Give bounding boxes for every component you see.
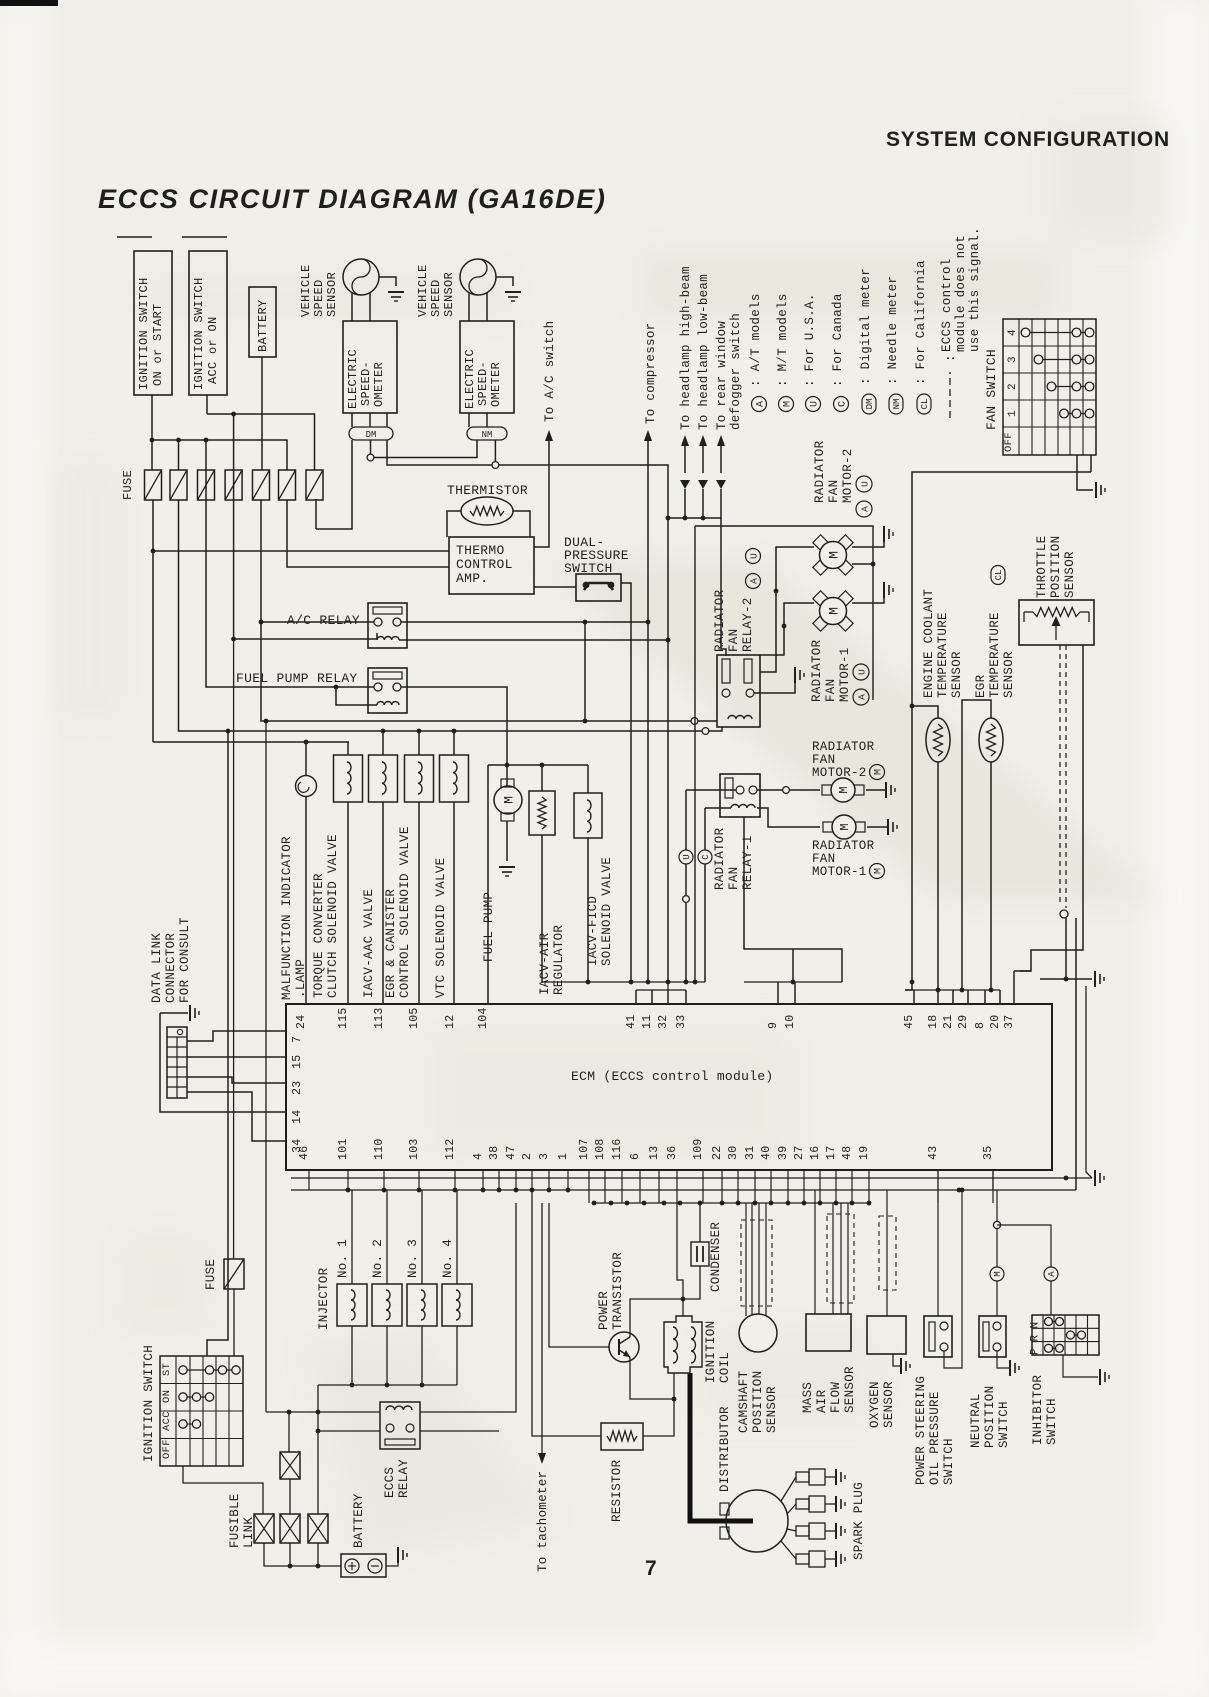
wire fuel pump relay coil left	[336, 687, 377, 705]
svg-text:OMETER: OMETER	[372, 362, 386, 407]
thermistor	[461, 497, 513, 525]
bus below ECM row 1	[291, 1177, 1060, 1179]
svg-text:A: A	[1047, 1271, 1057, 1277]
svg-text:VTC SOLENOID VALVE: VTC SOLENOID VALVE	[434, 858, 448, 998]
svg-text:To headlamp low-beam: To headlamp low-beam	[697, 274, 711, 430]
wire A/C relay contact output to compressor line	[401, 621, 648, 623]
svg-text:15: 15	[291, 1055, 304, 1069]
svg-text:ST: ST	[161, 1363, 173, 1376]
fuse F1	[145, 470, 162, 500]
resistor	[601, 1423, 643, 1450]
radiator fan motor-1 (A,U)	[838, 616, 854, 632]
connector DM	[349, 427, 393, 440]
wire condenser to coil top	[683, 1266, 700, 1299]
wire resistor to pin 2	[532, 1190, 601, 1436]
svg-text:ACC: ACC	[161, 1411, 173, 1431]
svg-text:RADIATOR: RADIATOR	[812, 839, 875, 853]
torque converter clutch solenoid valve	[347, 742, 349, 755]
circled A inhibitor branch	[997, 1225, 1051, 1267]
svg-text:FAN: FAN	[727, 867, 741, 890]
wire power transistor collector up	[630, 1299, 683, 1337]
svg-text:C: C	[701, 854, 711, 860]
svg-text:DATA LINK: DATA LINK	[150, 933, 164, 1003]
svg-text:BATTERY: BATTERY	[256, 299, 270, 352]
svg-text:RADIATOR: RADIATOR	[812, 740, 875, 754]
fan switch output bus to coolant sensor column	[912, 472, 1091, 982]
svg-text:M: M	[783, 401, 794, 407]
wire fuse6 to thermo control amp	[287, 500, 449, 567]
ground radiator fan motor-1M	[888, 819, 897, 835]
inhibitor switch table	[1032, 1315, 1099, 1355]
svg-text:MOTOR-1: MOTOR-1	[812, 865, 867, 879]
svg-text:U: U	[682, 854, 692, 859]
svg-text:ELECTRIC: ELECTRIC	[463, 349, 477, 409]
wire injector No. 1 to supply bus	[351, 1326, 353, 1385]
svg-text:INJECTOR: INJECTOR	[317, 1267, 331, 1330]
wire DLC ground link	[160, 1012, 188, 1014]
ground radiator fan motor-1AU	[884, 582, 893, 598]
power transistor	[609, 1332, 639, 1362]
svg-text:IGNITION SWITCH: IGNITION SWITCH	[192, 277, 206, 390]
svg-text:FOR CONSULT: FOR CONSULT	[178, 917, 192, 1003]
wire coolant sensor to ECM	[937, 762, 939, 990]
svg-text:No. 1: No. 1	[336, 1239, 350, 1278]
svg-text:ECCS CIRCUIT DIAGRAM (GA16DE): ECCS CIRCUIT DIAGRAM (GA16DE)	[98, 184, 606, 214]
svg-text:EGR & CANISTER: EGR & CANISTER	[384, 889, 398, 998]
A/C relay	[368, 603, 407, 648]
svg-text:FUSIBLE: FUSIBLE	[228, 1493, 242, 1548]
wire bus row2 right end down	[1075, 1189, 1077, 1191]
svg-text:101: 101	[337, 1138, 350, 1160]
wire power steering switch from pin 43	[937, 1190, 939, 1316]
svg-text:10: 10	[784, 1015, 797, 1029]
bus fuse1 to solenoid valve 1 and MIL	[153, 741, 349, 743]
fan switch ground drop	[1077, 472, 1093, 490]
svg-text:CONTROL: CONTROL	[456, 557, 513, 572]
svg-text:THERMISTOR: THERMISTOR	[447, 483, 528, 498]
svg-text:RELAY: RELAY	[397, 1459, 411, 1498]
wire branch down to ECM pin 104	[487, 765, 489, 1004]
wire A/C relay coil to fuse4 column	[234, 470, 377, 639]
distributor	[726, 1490, 788, 1552]
ground data link connector	[190, 1005, 199, 1021]
svg-text:ECCS control: ECCS control	[940, 258, 954, 352]
svg-text:N: N	[1030, 1322, 1042, 1329]
dashed shield camshaft position sensor	[741, 1220, 772, 1306]
svg-text:TEMPERATURE: TEMPERATURE	[988, 612, 1002, 698]
spark plug 4	[781, 1541, 796, 1559]
wire battery to fuse 5	[261, 357, 263, 470]
bus below ECM row 2	[291, 1189, 1076, 1191]
svg-text:35: 35	[982, 1146, 995, 1160]
wire relay-2 left contact to bus B	[709, 727, 722, 731]
wire relay-1 coil left	[705, 807, 731, 809]
dashed shield oxygen sensor	[879, 1216, 896, 1290]
svg-text:SWITCH: SWITCH	[942, 1438, 956, 1485]
ignition switch table	[160, 1356, 243, 1466]
svg-text:SENSOR: SENSOR	[765, 1386, 779, 1433]
connector on relay-1 feed	[683, 896, 690, 903]
wire long vertical to ignition switch table col1	[207, 731, 228, 1356]
svg-text:.LAMP: .LAMP	[294, 959, 308, 998]
wire NM right output to meter bus	[494, 440, 496, 461]
svg-text:: For U.S.A.: : For U.S.A.	[803, 293, 817, 387]
svg-text:SPARK PLUG: SPARK PLUG	[852, 1482, 866, 1560]
svg-text:MOTOR-2: MOTOR-2	[841, 448, 855, 503]
engine coolant temperature sensor	[912, 706, 938, 718]
svg-text:7: 7	[645, 1557, 657, 1580]
wire VSS1 to ground	[379, 277, 396, 286]
svg-text:COIL: COIL	[718, 1352, 732, 1383]
ground radiator fan relay-2	[795, 667, 804, 683]
svg-text:FLOW: FLOW	[829, 1382, 843, 1413]
fuse F5	[253, 470, 270, 500]
spark plug 1	[781, 1477, 796, 1501]
ignition switch ON or START box	[134, 251, 172, 395]
svg-text:M: M	[502, 796, 517, 804]
wire thermo amp to dual-pressure switch	[534, 586, 576, 588]
wire DLC to ECM pin 14	[160, 1013, 286, 1112]
svg-text:FAN: FAN	[824, 679, 838, 702]
ground VSS2	[505, 292, 521, 301]
wire fuse1 down with tap to thermo control amp	[152, 500, 154, 742]
radiator fan motor-1 (M)	[823, 822, 833, 832]
bus above ECM right segment	[905, 989, 1000, 991]
neutral position switch	[979, 1316, 1006, 1357]
spark plug 3	[787, 1529, 796, 1531]
svg-text:U: U	[859, 481, 870, 487]
arrow up for accessory circuit 3	[720, 444, 722, 473]
svg-text:TORQUE CONVERTER: TORQUE CONVERTER	[312, 873, 326, 998]
wire EGR sensor top	[962, 700, 991, 990]
wire dual-pressure switch output to fan relay column	[621, 583, 631, 982]
data link connector for CONSULT	[167, 1027, 187, 1098]
svg-text:No. 4: No. 4	[441, 1239, 455, 1278]
oxygen sensor box	[867, 1316, 906, 1354]
wires TPS dashed to ECM	[1059, 645, 1061, 905]
IACV-FICD solenoid valve	[574, 793, 602, 838]
svg-text:SPEED-: SPEED-	[359, 361, 373, 406]
svg-text:RADIATOR: RADIATOR	[813, 440, 827, 503]
IACV-air regulator	[529, 791, 555, 835]
svg-text:VEHICLE: VEHICLE	[299, 264, 313, 317]
svg-text:ON or START: ON or START	[151, 303, 165, 386]
wire vertical feed to ECCS relay bus	[265, 721, 267, 1412]
svg-text:ENGINE COOLANT: ENGINE COOLANT	[922, 589, 936, 698]
svg-text:SENSOR: SENSOR	[1063, 551, 1077, 598]
IACV-AAC valve	[382, 731, 384, 755]
wire TPS return line	[1075, 918, 1077, 1190]
wire IACV-AAC valve to ECM	[382, 802, 384, 1004]
wire relay-1 coil right to motor-1M	[757, 808, 820, 827]
wire fuel pump relay output to fuel pump	[401, 687, 507, 765]
svg-text:31: 31	[744, 1146, 757, 1160]
junction connector on meter link	[367, 454, 374, 461]
wire IACV-FICD down to top bus	[587, 838, 589, 982]
legend symbol A	[752, 397, 767, 412]
bus ignition switch 1 feeding fuses 1-3 and 6	[152, 440, 287, 470]
wire power transistor emitter down	[630, 1357, 674, 1399]
svg-text:R: R	[1030, 1334, 1042, 1341]
ground inhibitor switch	[1100, 1369, 1109, 1385]
svg-text:VEHICLE: VEHICLE	[416, 264, 430, 317]
svg-text:112: 112	[444, 1138, 457, 1160]
svg-text:CONDENSER: CONDENSER	[709, 1222, 723, 1292]
stubs into ECM top pins right	[905, 982, 912, 990]
injector supply bus	[318, 1384, 457, 1386]
svg-text:14: 14	[291, 1110, 304, 1124]
wire MIL down to ECM pin 24	[305, 796, 307, 1004]
junction connector on meter bus	[492, 462, 499, 469]
inhibitor contacts N row	[1049, 1321, 1060, 1323]
svg-text:40: 40	[760, 1146, 773, 1160]
wires mass air flow sensor	[832, 1203, 834, 1314]
svg-text:ECM (ECCS control module): ECM (ECCS control module)	[571, 1069, 774, 1084]
legend symbol NM	[889, 394, 903, 414]
bus fuse5 to radiator fan relay-2 coil	[261, 500, 691, 721]
svg-text:use this signal.: use this signal.	[968, 227, 982, 352]
svg-text:OMETER: OMETER	[489, 362, 503, 407]
svg-text:113: 113	[373, 1007, 386, 1029]
ignition coil	[682, 1299, 684, 1316]
wires speedometer 1 to DM connector	[351, 413, 353, 427]
wire VTC solenoid valve to ECM	[453, 802, 455, 1004]
fuel pump relay	[368, 668, 407, 713]
spark plug 2	[787, 1504, 796, 1514]
wire fuel pump branch to IACV units and pin 104	[488, 764, 588, 766]
svg-text:3: 3	[1007, 356, 1019, 363]
wire PS switch return	[944, 1190, 962, 1368]
svg-text:No. 3: No. 3	[406, 1239, 420, 1278]
bus ignition switch 2 feeding fuses 4 and 7	[207, 414, 315, 470]
ECM (ECCS control module)	[286, 1004, 1052, 1170]
wire fuse1 tap to thermo control amp	[153, 550, 449, 552]
svg-text:OIL PRESSURE: OIL PRESSURE	[928, 1391, 942, 1485]
link bus to pin row	[667, 982, 669, 990]
svg-text:To rear window: To rear window	[715, 321, 729, 430]
wire motor-1AU left	[784, 603, 814, 626]
svg-text:DISTRIBUTOR: DISTRIBUTOR	[718, 1406, 732, 1492]
svg-text:45: 45	[903, 1015, 916, 1029]
svg-text:A/C RELAY: A/C RELAY	[287, 613, 360, 628]
fuse F7	[306, 470, 323, 500]
svg-text:MOTOR-1: MOTOR-1	[838, 647, 852, 702]
svg-text:THROTTLE: THROTTLE	[1035, 536, 1049, 598]
ground right of ECM top	[1040, 978, 1092, 980]
wire branch down from A/C relay output	[584, 622, 586, 721]
diode mark for accessory circuit 2	[698, 480, 708, 489]
fusible link 3	[308, 1514, 328, 1543]
svg-text:33: 33	[675, 1015, 688, 1029]
wire relay-1 left contact	[686, 789, 736, 791]
fusible link small above FL2	[280, 1452, 300, 1479]
svg-text:2: 2	[521, 1153, 534, 1160]
svg-text:AIR: AIR	[815, 1389, 829, 1413]
wire DLC to ECM pin 7	[187, 1031, 286, 1041]
svg-text::: :	[944, 354, 958, 362]
wire fuel pump relay feed from fuse3	[206, 470, 374, 687]
svg-text:OXYGEN: OXYGEN	[868, 1381, 882, 1428]
svg-text:29: 29	[957, 1015, 970, 1029]
svg-text:U: U	[748, 553, 759, 559]
wires speedometer 2 to NM connector	[468, 413, 470, 427]
svg-text:M: M	[827, 607, 842, 615]
svg-text:FAN SWITCH: FAN SWITCH	[984, 349, 999, 430]
svg-text:M: M	[837, 786, 851, 793]
svg-text:POSITION: POSITION	[983, 1386, 997, 1448]
svg-text:CONNECTOR: CONNECTOR	[164, 933, 178, 1003]
bus to ECCS relay row 1	[266, 1411, 380, 1413]
wire down to lower ground	[1086, 986, 1092, 1178]
svg-text:11: 11	[641, 1015, 654, 1029]
wire X-fuse feed	[288, 1412, 290, 1452]
ground fuel pump	[499, 867, 515, 876]
legend symbol M	[779, 397, 794, 412]
stubs bus to fuses	[151, 440, 153, 470]
ECCS relay	[380, 1402, 420, 1449]
svg-text:116: 116	[611, 1138, 624, 1160]
wire defogger feed to radiator fan relay-2	[721, 518, 726, 656]
svg-text:IGNITION: IGNITION	[704, 1321, 718, 1383]
svg-text:CL: CL	[994, 570, 1004, 581]
wire ignition switch 2 down	[206, 395, 208, 414]
dashed shield mass air flow sensor	[827, 1214, 854, 1303]
svg-text:: Digital meter: : Digital meter	[859, 268, 873, 385]
radiator fan motor-2 (M)	[822, 785, 832, 795]
svg-text:107: 107	[578, 1138, 591, 1160]
wire EGR sensor to ECM	[990, 762, 992, 990]
inhibitor contacts P row	[1049, 1347, 1060, 1349]
legend symbol C	[834, 397, 849, 412]
svg-text:CLUTCH SOLENOID VALVE: CLUTCH SOLENOID VALVE	[326, 834, 340, 998]
svg-text:115: 115	[337, 1007, 350, 1029]
svg-text:SENSOR: SENSOR	[442, 272, 456, 317]
wire injector No. 4 to supply bus	[456, 1326, 458, 1385]
svg-text:FAN: FAN	[812, 753, 835, 767]
svg-text:12: 12	[444, 1015, 457, 1029]
svg-text:POSITION: POSITION	[1049, 536, 1063, 598]
svg-text:DM: DM	[865, 399, 875, 410]
fusible link 1	[254, 1514, 274, 1543]
ignition switch contacts ST row	[183, 1369, 236, 1371]
svg-text:SENSOR: SENSOR	[325, 272, 339, 317]
fuse F6	[279, 470, 296, 500]
wire IACV-air regulator down to top bus	[541, 835, 543, 982]
svg-text:SWITCH: SWITCH	[1045, 1398, 1059, 1445]
wire battery to ground	[386, 1560, 398, 1566]
svg-text:18: 18	[927, 1015, 940, 1029]
svg-text:FUSE: FUSE	[121, 470, 135, 500]
trim mark lines above ignition switch boxes	[117, 236, 152, 238]
svg-text:: A/T models: : A/T models	[749, 293, 763, 387]
svg-text:OFF: OFF	[1003, 432, 1015, 452]
malfunction indicator lamp	[305, 742, 307, 776]
svg-text:110: 110	[373, 1138, 386, 1160]
wire VSS2 to ground	[496, 277, 513, 286]
svg-text:22: 22	[711, 1146, 724, 1160]
svg-text:: M/T models: : M/T models	[776, 293, 790, 387]
svg-text:A: A	[859, 506, 870, 512]
wire motor-2AU lower tab to right edge	[852, 563, 873, 565]
bus fuse2 to radiator fan relay-2	[179, 500, 703, 731]
svg-text:POWER STEERING: POWER STEERING	[914, 1376, 928, 1485]
wire and arrow to compressor from A/C relay	[647, 441, 649, 982]
svg-text:: Needle meter: : Needle meter	[886, 276, 900, 385]
wire coil primary to emitter junction	[673, 1373, 675, 1399]
svg-text:CONTROL SOLENOID VALVE: CONTROL SOLENOID VALVE	[398, 826, 412, 998]
wire oxygen sensor	[886, 1190, 888, 1316]
svg-text:23: 23	[291, 1081, 304, 1095]
ECM bottom pin stubs	[308, 1170, 310, 1190]
svg-text:C: C	[838, 401, 849, 407]
junction dots accessory bus	[683, 516, 688, 521]
fusible link 2	[280, 1514, 300, 1543]
wire relay-1 right contact to motor-2M	[757, 789, 782, 791]
svg-text:TRANSISTOR: TRANSISTOR	[611, 1252, 625, 1330]
wire motor-2AU right to ground	[852, 540, 884, 547]
svg-text:No. 2: No. 2	[371, 1239, 385, 1278]
svg-text:IGNITION SWITCH: IGNITION SWITCH	[142, 1345, 156, 1462]
svg-text:SPEED: SPEED	[312, 279, 326, 317]
wire DLC to ECM pin 15	[187, 1056, 286, 1058]
svg-text:FAN: FAN	[812, 852, 835, 866]
wire torque converter clutch solenoid valve to ECM	[347, 802, 349, 1004]
svg-text:A: A	[856, 694, 867, 700]
circled M neutral branch	[996, 1229, 998, 1267]
svg-text:ON: ON	[161, 1390, 173, 1403]
svg-text:: For Canada: : For Canada	[831, 293, 845, 387]
svg-text:P: P	[1030, 1348, 1042, 1355]
injector No. 1	[351, 1190, 353, 1284]
svg-text:SPEED: SPEED	[429, 279, 443, 317]
distributor high tension lead	[690, 1373, 753, 1521]
wire injector No. 3 to supply bus	[421, 1326, 423, 1385]
fuse F2	[170, 470, 187, 500]
svg-text:RADIATOR: RADIATOR	[713, 589, 727, 652]
fuse bottom single	[233, 639, 235, 1259]
svg-text:SPEED-: SPEED-	[476, 361, 490, 406]
svg-text:FUSE: FUSE	[204, 1259, 218, 1290]
svg-text:M: M	[874, 769, 885, 775]
arrow to tachometer	[541, 1203, 543, 1455]
svg-text:M: M	[874, 868, 885, 874]
svg-text:47: 47	[505, 1146, 518, 1160]
svg-text:39: 39	[777, 1146, 790, 1160]
svg-text:37: 37	[1003, 1015, 1016, 1029]
svg-text:9: 9	[767, 1022, 780, 1029]
svg-text:OFF: OFF	[161, 1439, 173, 1459]
svg-text:NM: NM	[482, 430, 493, 440]
svg-text:IACV-AIR: IACV-AIR	[538, 932, 552, 995]
wire and arrow to A/C switch from thermo amp	[534, 441, 549, 547]
wire inhibitor switch ground	[1063, 1355, 1098, 1377]
wires thermistor to thermo control amp	[447, 511, 461, 537]
wires fusible links to battery bus	[264, 1543, 341, 1566]
svg-text:19: 19	[858, 1146, 871, 1160]
inhibitor contacts R row	[1071, 1334, 1082, 1336]
svg-text:EGR: EGR	[974, 674, 988, 698]
circled U variant mark	[685, 790, 687, 850]
svg-text:103: 103	[408, 1138, 421, 1160]
wire ECCS relay to pin columns	[420, 1203, 516, 1412]
svg-text:48: 48	[841, 1146, 854, 1160]
svg-text:27: 27	[793, 1146, 806, 1160]
svg-text:108: 108	[594, 1138, 607, 1160]
fuel pump motor	[494, 786, 522, 814]
svg-text:30: 30	[727, 1146, 740, 1160]
wire motor-1M to ground	[867, 826, 888, 828]
meter bus to fan zone	[499, 465, 668, 982]
